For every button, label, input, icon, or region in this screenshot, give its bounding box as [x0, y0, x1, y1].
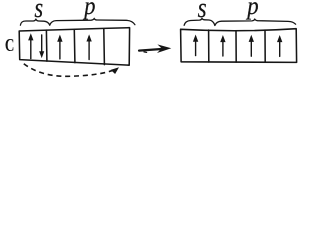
orbital box outline right (excited state) — [181, 29, 297, 63]
svg-text:s: s — [34, 0, 43, 24]
orbital box outline left (ground state) — [19, 28, 129, 65]
box divider p1/p2 right — [235, 31, 237, 62]
box divider p2/p3 left — [103, 29, 106, 65]
box divider p2/p3 right — [264, 30, 266, 62]
electron arrow up (2s, left box 1) — [29, 34, 33, 58]
brace p left — [50, 19, 135, 26]
electron arrow down (2s, left box 1) — [40, 35, 44, 57]
electron arrow up (2p, right box 2) — [221, 36, 225, 56]
box divider s/p left — [45, 30, 48, 61]
label C (carbon atom symbol) — [5, 35, 15, 55]
svg-text:s: s — [198, 0, 207, 24]
brace p right — [215, 19, 296, 25]
electron arrow up (2p, left box 2) — [58, 36, 62, 59]
brace s left — [20, 19, 49, 25]
box divider p1/p2 left — [73, 30, 76, 63]
svg-text:p: p — [245, 0, 258, 20]
electron arrow up (2p, left box 3) — [87, 36, 91, 60]
svg-text:C: C — [5, 35, 15, 55]
svg-text:p: p — [82, 0, 95, 20]
dashed promotion arrow (2s electron to empty 2p) — [24, 64, 119, 77]
electron arrow up (2p, right box 3) — [249, 36, 253, 56]
brace s right — [184, 19, 215, 26]
electron arrow up (2p, right box 4) — [278, 36, 282, 56]
electron arrow up (2s, right box 1) — [194, 36, 198, 56]
box divider s/p right — [208, 30, 210, 62]
transition arrow (ground to excited state) — [139, 44, 171, 53]
